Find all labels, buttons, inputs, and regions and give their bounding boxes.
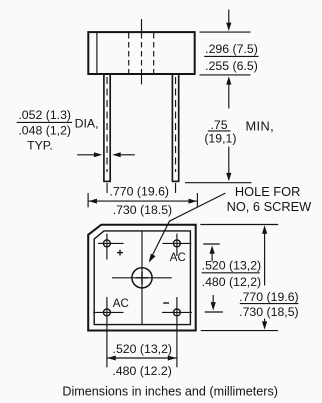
arrow down to bottom pad row <box>211 295 216 311</box>
lead dia arrow left <box>77 152 102 157</box>
label AC top-right <box>170 252 186 264</box>
dimension text .770/.730 right <box>239 290 298 319</box>
svg-text:.770 (19.6): .770 (19.6) <box>239 290 298 304</box>
label AC bottom-left <box>113 298 129 310</box>
pad circle top-left <box>98 234 124 260</box>
right lead centerline <box>175 77 177 193</box>
label minus <box>163 302 169 304</box>
lead dia arrow right <box>112 152 135 157</box>
body left inner edge line <box>96 33 98 73</box>
arrow down to lead end <box>226 147 231 182</box>
svg-text:.255 (6.5): .255 (6.5) <box>205 59 258 73</box>
svg-text:.520 (13,2): .520 (13,2) <box>202 258 261 272</box>
dimension text .75/(19,1) MIN <box>204 118 274 145</box>
vertical centerline of body <box>141 19 143 84</box>
dimension line .770 top view <box>89 199 197 204</box>
pad circle bottom-right <box>162 309 192 316</box>
caption <box>62 385 278 399</box>
dimension line .770 tall right <box>262 225 267 329</box>
svg-text:Dimensions in inches and (mill: Dimensions in inches and (millimeters) <box>62 385 278 399</box>
arrow up to body bottom <box>226 76 231 108</box>
svg-text:(19,1): (19,1) <box>204 131 236 145</box>
label DIA <box>75 116 99 130</box>
extension line square top right <box>200 224 278 226</box>
arrow down to body top <box>226 10 231 32</box>
dimension text .052/.048 TYP <box>17 108 72 152</box>
pad circle bottom-left <box>93 309 123 316</box>
right lead <box>172 75 180 181</box>
center hole <box>132 268 152 288</box>
extension line bottom-left pad <box>106 297 108 367</box>
svg-text:.730 (18.5): .730 (18.5) <box>113 203 172 217</box>
hole center cross <box>136 272 148 284</box>
svg-text:.770 (19.6): .770 (19.6) <box>110 185 169 199</box>
svg-text:AC: AC <box>170 252 186 264</box>
svg-text:.052 (1.3): .052 (1.3) <box>18 108 71 122</box>
extension line .770 left <box>87 193 89 207</box>
hidden hole dashed line right <box>153 33 155 73</box>
top view body outline <box>88 32 194 74</box>
pad circle top-right <box>163 234 192 256</box>
extension line body bottom right <box>200 74 251 76</box>
svg-text:.480 (12.2): .480 (12.2) <box>112 364 171 378</box>
extension line bottom-right pad <box>176 297 178 367</box>
svg-text:MIN,: MIN, <box>246 119 275 134</box>
dimension text .520/.480 right <box>202 258 262 289</box>
svg-text:.75: .75 <box>210 118 227 132</box>
svg-text:TYP.: TYP. <box>27 139 53 153</box>
dimension text .296/.255 <box>204 42 258 73</box>
note HOLE FOR NO, 6 SCREW <box>227 184 313 214</box>
bottom view outer outline <box>88 225 196 331</box>
svg-text:.730 (18,5): .730 (18,5) <box>239 305 298 319</box>
hole horizontal centerline <box>112 277 172 279</box>
left lead <box>103 75 111 181</box>
tick pad row top <box>203 243 219 245</box>
bottom view inner outline <box>94 231 190 325</box>
dimension text .770/.730 top view <box>110 185 173 218</box>
svg-text:AC: AC <box>113 298 129 310</box>
svg-text:HOLE FOR: HOLE FOR <box>235 184 300 199</box>
extension line lead end right <box>185 182 252 184</box>
leader from note to hole <box>149 193 226 263</box>
svg-text:NO, 6 SCREW: NO, 6 SCREW <box>227 199 313 214</box>
label plus <box>117 250 123 256</box>
svg-text:.480 (12,2): .480 (12,2) <box>202 275 261 289</box>
svg-text:.048 (1,2): .048 (1,2) <box>18 124 71 138</box>
extension line square bottom right <box>201 330 278 332</box>
tick pad row bottom <box>205 311 223 313</box>
hole vertical centerline <box>141 231 143 324</box>
dimension line .520 bottom <box>107 356 176 361</box>
left lead centerline <box>106 77 108 193</box>
svg-text:.296 (7.5): .296 (7.5) <box>205 42 258 56</box>
svg-text:.520 (13,2): .520 (13,2) <box>113 342 172 356</box>
dimension text .520/.480 bottom <box>112 342 172 378</box>
arrow up to top pad row <box>210 245 215 261</box>
svg-text:DIA,: DIA, <box>75 116 99 130</box>
extension line body top right <box>200 31 251 33</box>
extension line .770 right <box>196 193 198 208</box>
hidden hole dashed line left <box>128 33 130 73</box>
